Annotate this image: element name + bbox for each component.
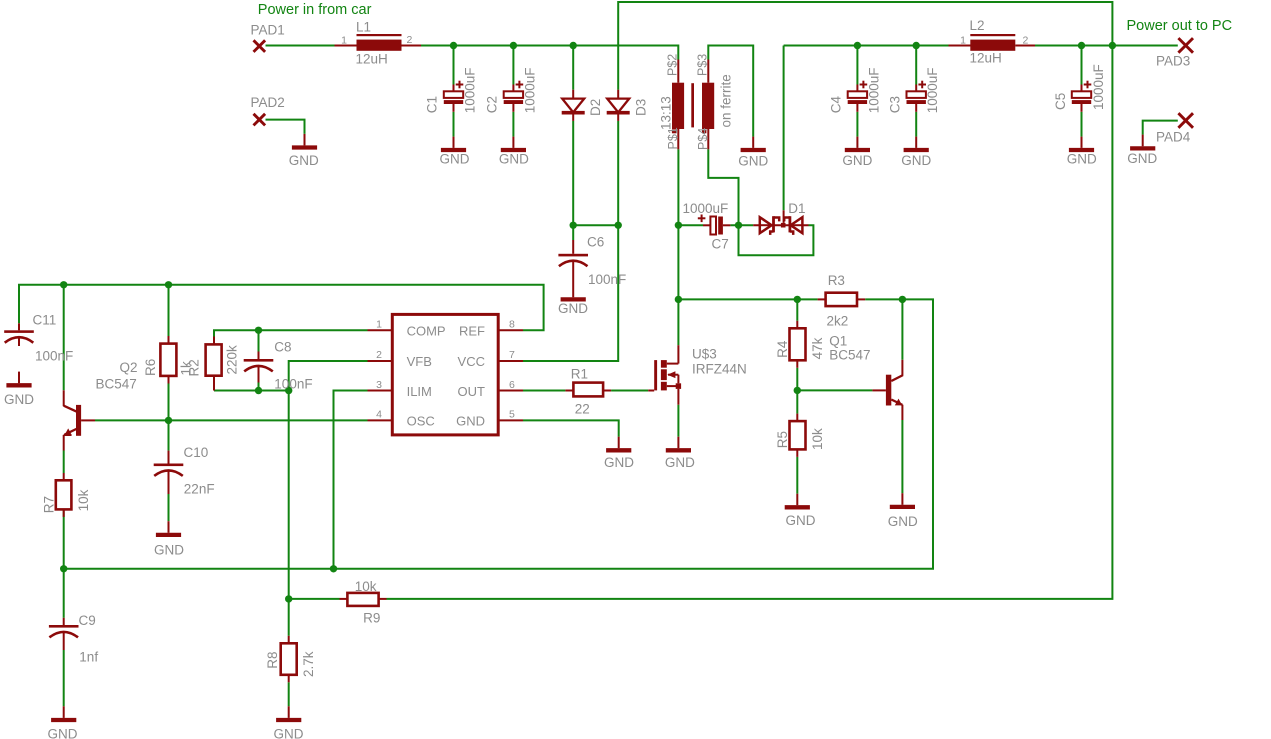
pin stub R5 top [796,414,798,422]
resistor R3 [826,293,857,306]
pin stub C3 minus [915,104,917,112]
wire C7 right to D1 left [730,224,753,226]
svg-text:1: 1 [376,319,382,331]
ground C5 [1081,137,1083,148]
svg-text:PAD2: PAD2 [251,95,285,110]
svg-text:L2: L2 [970,18,985,33]
pin stub R2 bottom [213,376,215,391]
svg-text:220k: 220k [224,345,239,375]
ground Q1 emitter [901,493,903,505]
wire IC pin 8 REF to rail and C11 [19,285,544,331]
pin stub R4 bottom [796,360,798,368]
svg-text:Power in from car: Power in from car [258,2,372,18]
wire D3 anode up, top rail, right column down to R9 row [387,2,1113,599]
svg-text:GND: GND [154,542,184,557]
ground C10 [168,521,170,533]
inductor L1 [357,40,402,51]
capacitor C5 [1072,91,1091,98]
wire R5 top [796,390,798,413]
svg-text:D3: D3 [634,99,649,116]
svg-text:C9: C9 [79,613,96,628]
wire IC pin 6 OUT to R1 [523,390,565,392]
pin stub C4 plus [856,85,858,92]
svg-text:P$4: P$4 [696,128,710,150]
svg-text:GND: GND [289,153,319,168]
wire output rail to L2 [784,45,949,47]
resistor R2 [206,344,222,375]
svg-text:10k: 10k [810,428,825,450]
pin stub D3 cathode [617,114,619,121]
pin stub IC pin 8 [498,329,523,331]
transistor U$3 source connection [667,385,679,387]
svg-text:4: 4 [376,409,382,421]
svg-text:Q1: Q1 [829,333,847,348]
wire C10 bottom to GND [168,494,170,521]
pin stub transformer P$1 [677,129,679,149]
pin stub R4 top [796,321,798,329]
svg-text:GND: GND [842,153,872,168]
ground R5 [796,494,798,506]
pin stub C6 top [572,240,574,254]
svg-text:1000uF: 1000uF [866,68,881,114]
wire MOSFET source to GND [677,405,679,437]
capacitor C9 [49,625,79,628]
svg-text:10k: 10k [355,579,377,594]
pin stub IC pin 7 [498,360,523,362]
svg-text:R1: R1 [571,366,588,381]
wire transformer P$3 to GND [708,46,753,137]
wire C3 bottom to GND [915,112,917,137]
pin stub C7 minus [723,224,731,226]
svg-text:C6: C6 [587,234,604,249]
pin stub C2 plus [512,85,514,92]
pin stub C11 bottom [18,337,20,346]
wire transformer P$1 down to MOSFET drain [677,149,679,345]
svg-text:D1: D1 [788,201,805,216]
svg-text:2k2: 2k2 [827,313,849,328]
resistor R5 [790,421,806,449]
svg-text:1000uF: 1000uF [925,68,940,114]
wire C2 bottom to GND [512,112,514,137]
svg-text:C11: C11 [33,312,57,327]
wire VFB column pin 2 down to R9/R8 node [289,361,368,599]
junction output rail/feedback column [1109,42,1116,49]
wire R5 bottom to GND [796,457,798,494]
resistor R1 [573,383,603,397]
pin stub R8 bottom [288,675,290,683]
pin stub transformer P$4 [707,129,709,149]
svg-text:D2: D2 [588,99,603,116]
svg-text:GND: GND [1127,151,1157,166]
junction R4/R3 row [794,296,801,303]
ground PAD2 [304,134,306,146]
svg-text:C1: C1 [425,96,440,113]
junction C6/VCC node [570,222,577,229]
svg-text:ILIM: ILIM [407,384,432,399]
svg-text:R7: R7 [41,496,56,513]
ground MOSFET source [677,437,679,449]
pin stub L2 pin 2 [1015,45,1035,47]
wire R2/C8 bottom row [214,390,289,392]
capacitor C1 [444,91,463,98]
svg-text:on ferrite: on ferrite [718,74,733,127]
diode D2 [562,99,584,113]
wire C9 top [63,569,65,618]
junction C2/input rail [510,42,517,49]
junction R6/REF rail [165,281,172,288]
wire C9 bottom to GND [63,650,65,706]
svg-text:PAD4: PAD4 [1156,130,1191,145]
transistor Q1 base bar [886,375,891,406]
wire ILIM pin 3 down to sense row [334,391,368,569]
wire Q1 emitter to GND [901,420,903,493]
svg-text:R4: R4 [775,340,790,358]
svg-text:1000uF: 1000uF [683,201,729,216]
capacitor C8 [244,359,274,362]
wire R8 top [288,599,290,636]
diode D1 lead line [753,224,808,226]
svg-text:OSC: OSC [407,413,435,428]
diode D3 [607,99,629,113]
svg-text:2: 2 [376,349,382,361]
junction D2/input rail [570,42,577,49]
wire drain node to C7 left [678,224,703,226]
wire PAD2 to GND [266,120,305,134]
pin stub IC pin 4 [368,419,393,421]
pin stub IC pin 2 [368,360,393,362]
pin stub R9 right [379,598,387,600]
wire R1 to MOSFET gate [611,390,648,392]
svg-text:C4: C4 [829,96,844,114]
svg-text:22nF: 22nF [184,482,215,497]
svg-text:C8: C8 [274,339,291,354]
pin stub R3 left [818,298,826,300]
pin stub C8 top [258,352,260,360]
wire D2 anode to input rail [572,46,574,90]
capacitor C10 [154,464,184,467]
junction C7/D1/P$4 [735,222,742,229]
wire R4 top [796,299,798,320]
transistor U$3 body diode arrow [668,374,678,376]
pin stub C2 minus [512,104,514,112]
ground IC pin 5 [618,437,620,449]
wire C3 top [915,46,917,85]
svg-text:U$3: U$3 [692,346,717,361]
svg-text:12uH: 12uH [970,50,1002,65]
svg-text:12uH: 12uH [356,52,388,67]
svg-text:R8: R8 [265,652,280,669]
pin stub R6 bottom [168,376,170,384]
wire VCC node C6 to D3 column [573,224,618,226]
svg-text:GND: GND [786,513,816,528]
svg-text:1000uF: 1000uF [463,68,478,114]
transistor Q2 emitter [65,429,77,435]
svg-text:P$3: P$3 [696,54,710,76]
svg-text:13:13: 13:13 [658,96,673,130]
svg-text:1nf: 1nf [79,650,98,665]
wire R6 top [168,285,170,336]
wire Q1 collector up [901,299,903,359]
wire OSC row Q2 base to IC pin 4 [95,419,368,421]
wire output rail L2 to PAD3 [1035,45,1178,47]
wire R7 bottom to sense row [63,509,65,568]
transistor Q2 base bar [76,405,81,436]
transistor Q2 collector [63,390,65,406]
pin stub R5 bottom [796,449,798,457]
resistor R6 [160,344,176,376]
svg-text:GND: GND [1067,152,1097,167]
junction Q2 collector/REF rail [60,281,67,288]
resistor R8 [281,643,297,675]
capacitor C2 [504,91,523,98]
wire D1 center up to output rail [783,46,785,211]
svg-text:Power out to PC: Power out to PC [1127,18,1233,34]
pin stub C3 plus [915,85,917,92]
transformer secondary winding [702,83,714,129]
wire input rail L1 to transformer P$2 [421,46,678,60]
transistor U$3 drain connection [667,363,679,365]
resistor R4 [790,328,806,360]
transformer primary polarity dot [672,129,676,133]
wire transformer P$4 to C7 node [708,149,738,225]
svg-text:PAD3: PAD3 [1156,54,1190,69]
wire C2 top [512,46,514,85]
svg-text:100nF: 100nF [588,272,626,287]
wire D2 cathode down to VCC node [572,121,574,225]
wire R4/R5 node to Q1 base [797,389,872,391]
wire input rail PAD1 to L1 [266,45,335,47]
svg-text:R6: R6 [143,359,158,376]
svg-text:R9: R9 [363,610,380,625]
svg-text:GND: GND [4,392,34,407]
pin stub C4 minus [856,104,858,112]
transistor Q1 collector [891,375,903,381]
capacitor C11 [4,330,34,333]
svg-text:GND: GND [888,514,918,529]
wire VCC column down to IC pin 7 [523,225,618,361]
op-amp controller IC box [392,314,498,435]
pin stub C1 plus [453,85,455,92]
pad PAD1 [254,40,266,52]
wire Q2 collector column [63,285,65,391]
svg-text:7: 7 [509,349,515,361]
junction C4/output rail [854,42,861,49]
svg-text:10k: 10k [76,489,91,511]
svg-text:47k: 47k [810,337,825,359]
pin stub R6 top [168,336,170,344]
junction C3/output rail [913,42,920,49]
ground C3 [915,137,917,148]
transistor U$3 gate [654,360,657,390]
wire C10 top [168,420,170,450]
pin stub C9 bottom [63,632,65,651]
capacitor C6 [558,254,588,257]
pad PAD4 [1178,113,1193,128]
junction R7/C9/sense row [60,565,67,572]
pin stub C11 top [18,323,20,330]
junction VFB/R2 row [285,387,292,394]
pad PAD2 [254,114,266,126]
svg-text:22: 22 [575,401,590,416]
pin stub R7 bottom [63,509,65,517]
ground transformer P$3 [752,137,754,148]
wire PAD4 to GND [1143,121,1178,135]
transistor Q2 base lead [81,419,95,421]
transformer secondary polarity dot [702,129,706,133]
wire D3 cathode down to VCC node [617,121,619,225]
ground C1 [453,137,455,148]
svg-text:Q2: Q2 [120,360,138,375]
pin stub transformer P$3 [707,60,709,83]
svg-text:100nF: 100nF [35,348,73,363]
pin stub L2 pin 1 [949,45,971,47]
wire C8 top [258,330,260,351]
transformer primary winding [672,83,684,129]
capacitor C3 [907,91,926,98]
ground R8 [288,706,290,718]
wire C8 bottom [258,366,260,391]
ground PAD4 [1142,135,1144,147]
pin stub R3 right [857,298,865,300]
capacitor C4 [848,91,867,98]
svg-text:R5: R5 [775,431,790,448]
svg-text:REF: REF [459,323,485,338]
pin stub C7 plus [703,224,710,226]
svg-text:GND: GND [665,455,695,470]
svg-text:GND: GND [499,152,529,167]
svg-text:8: 8 [509,319,515,331]
junction C5/output rail [1078,42,1085,49]
svg-text:GND: GND [48,726,78,739]
pin stub R9 left [340,598,348,600]
wire C1 bottom to GND [453,112,455,137]
svg-text:C10: C10 [184,445,209,460]
transistor U$3 channel [661,360,667,368]
wire C4 bottom to GND [856,112,858,137]
pin stub IC pin 1 [368,329,393,331]
svg-text:C3: C3 [887,96,902,113]
pin stub R8 top [288,636,290,644]
svg-text:5: 5 [509,409,515,421]
svg-text:C7: C7 [712,236,729,251]
pin stub R7 top [63,473,65,480]
pin stub C5 minus [1081,104,1083,112]
ground C11 [18,372,20,384]
junction C1/input rail [450,42,457,49]
wire drain node row to R3 [678,298,817,300]
pin stub R1 left [565,390,573,392]
diode D1 right half [791,217,803,233]
svg-text:GND: GND [738,154,768,169]
junction Q1 collector/R3 [899,296,906,303]
svg-text:BC547: BC547 [829,347,870,362]
pin stub C1 minus [453,104,455,112]
capacitor C7 [710,217,716,235]
wire C5 top [1081,46,1083,85]
pin stub IC pin 5 [498,419,523,421]
pin stub IC pin 6 [498,390,523,392]
pin stub D2 cathode [572,114,574,121]
svg-text:R2: R2 [187,359,202,376]
svg-text:6: 6 [509,379,515,391]
wire R6 bottom to base node [168,384,170,421]
pin stub D3 anode [617,90,619,99]
svg-text:L1: L1 [356,20,371,35]
wire IC pin 5 to GND [523,420,619,436]
wire R8 bottom to GND [288,682,290,706]
pin stub R1 right [603,390,611,392]
svg-text:PAD1: PAD1 [251,23,285,38]
pin stub D2 anode [572,90,574,99]
junction ILIM/sense row [330,565,337,572]
ground C9 [63,706,65,718]
junction D3/VCC column [615,222,622,229]
junction drain/R3 row [675,296,682,303]
junction VFB/R9/R8 [285,595,292,602]
svg-text:GND: GND [274,726,304,739]
pin stub C5 plus [1081,85,1083,92]
wire R4 bottom [796,368,798,391]
svg-text:1000uF: 1000uF [522,68,537,114]
pin stub R2 top [213,337,215,345]
pin stub C8 bottom [258,367,260,383]
svg-text:1000uF: 1000uF [1091,64,1106,110]
wire Q2 emitter to R7 [63,451,65,474]
svg-text:IRFZ44N: IRFZ44N [692,362,747,377]
pin stub L1 pin 1 [335,45,357,47]
svg-text:GND: GND [604,455,634,470]
svg-text:1: 1 [960,34,966,46]
svg-text:R3: R3 [828,273,845,288]
svg-text:GND: GND [558,301,588,316]
diode D1 left half [760,217,772,233]
ground C4 [856,137,858,148]
transistor Q1 base lead [872,389,886,391]
ground C2 [512,137,514,148]
svg-text:2.7k: 2.7k [301,651,316,677]
wire C5 bottom to GND [1081,112,1083,137]
transistor Q1 emitter [891,400,902,405]
pin stub C10 top [168,451,170,464]
svg-text:GND: GND [440,152,470,167]
wire C6 top to VCC node [572,225,574,240]
junction C8 bottom row [255,387,262,394]
svg-text:100nF: 100nF [274,376,312,391]
junction drain column/C7 [675,222,682,229]
svg-text:2: 2 [1023,34,1029,46]
svg-text:1: 1 [341,35,347,47]
junction R4/R5/Q1 base [794,387,801,394]
svg-text:3: 3 [376,379,382,391]
junction R6/C10/OSC row [165,417,172,424]
pin stub L1 pin 2 [402,45,422,47]
transformer core [691,83,694,127]
resistor R7 [56,480,72,509]
resistor R9 [347,593,378,606]
junction C8/COMP row [255,327,262,334]
pin stub C9 top [63,618,65,625]
ground C6 [572,294,574,298]
svg-text:C5: C5 [1053,93,1068,110]
wire COMP row to R2 top [214,330,368,336]
wire D1 right loop back to C7 node [739,225,814,255]
pin stub C10 bottom [168,470,170,494]
wire R9 left [289,598,340,600]
inductor L2 [970,40,1015,51]
svg-text:BC547: BC547 [96,377,137,392]
wire C1 top [453,46,455,85]
svg-text:GND: GND [901,153,931,168]
